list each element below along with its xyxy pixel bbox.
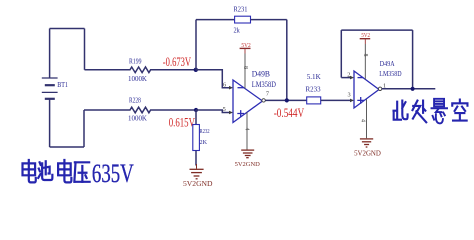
svg-text:R233: R233 (306, 85, 321, 93)
ground 5V2GND under U2 (360, 139, 373, 147)
wire bottom horizontal (50, 146, 84, 148)
wire U1 output (265, 99, 306, 101)
pin 7 output bubble (262, 99, 265, 102)
glyph 电 (2) (58, 160, 71, 182)
pin 3 arrow (350, 99, 354, 103)
ground 5V2GND under R232 (190, 164, 204, 179)
svg-text:7: 7 (266, 91, 269, 98)
wire junction to op-amp pin 6 (196, 70, 230, 88)
op-amp U1 D49B LM358D (233, 80, 263, 123)
svg-text:0.615V: 0.615V (169, 116, 195, 130)
pin 8 stub U2 (364, 39, 366, 44)
svg-text:R231: R231 (234, 5, 248, 14)
svg-text:5V2GND: 5V2GND (354, 151, 381, 158)
wire feedback right vertical U2 (412, 30, 414, 89)
svg-text:D49B: D49B (252, 69, 270, 78)
svg-text:R232: R232 (200, 128, 210, 135)
node -0.673V junction (194, 68, 198, 72)
node 0.615V junction (194, 108, 198, 112)
svg-text:6: 6 (223, 81, 226, 88)
svg-text:LM358D: LM358D (252, 81, 276, 90)
svg-text:1000K: 1000K (128, 75, 148, 83)
wire battery top stem (49, 29, 51, 79)
wire U2 output (382, 88, 436, 90)
svg-text:LM358D: LM358D (379, 70, 401, 78)
glyph 空 (452, 100, 467, 121)
wire feedback left vertical U2 (340, 30, 342, 78)
pin 8 stub (244, 48, 246, 53)
svg-text:5.1K: 5.1K (307, 72, 322, 81)
pin 5 arrow (229, 111, 233, 115)
wire pin2 from feedback (341, 77, 350, 79)
pin 1 output bubble (378, 87, 381, 90)
minus symbol pin2 (358, 77, 364, 79)
resistor R199 (85, 67, 196, 73)
note text 电池电压635V (23, 160, 90, 182)
note text 此处悬空 (394, 99, 468, 124)
glyph 电 (1) (23, 160, 36, 182)
wire top horizontal (50, 28, 85, 30)
wire feedback top U2 (341, 29, 412, 31)
svg-text:5V2GND: 5V2GND (183, 179, 213, 188)
pin 2 arrow (350, 76, 354, 80)
svg-text:635V: 635V (92, 159, 134, 188)
svg-text:5: 5 (223, 106, 226, 113)
wire battery bottom stem (49, 99, 51, 147)
pin 4 stub U2 (366, 100, 368, 139)
svg-text:1000K: 1000K (128, 114, 148, 122)
pin 4 stub (246, 112, 248, 149)
glyph 池 (38, 161, 52, 180)
svg-text:8: 8 (242, 66, 248, 69)
svg-text:R228: R228 (129, 97, 141, 105)
node -0.544V junction (285, 98, 289, 102)
svg-text:-0.673V: -0.673V (163, 55, 191, 69)
ground 5V2GND under U1 (241, 150, 254, 158)
svg-text:D49A: D49A (380, 60, 395, 68)
minus symbol pin6 (238, 87, 244, 89)
op-amp U2 D49A LM358D (354, 71, 379, 108)
node output junction (411, 87, 415, 91)
svg-text:5V2GND: 5V2GND (235, 161, 261, 168)
pin 6 arrow (229, 86, 233, 90)
battery BT1 (42, 78, 58, 99)
wire feedback vertical up (195, 20, 197, 70)
plus symbol pin5 (237, 110, 244, 117)
svg-text:2K: 2K (200, 139, 208, 146)
glyph 处 (413, 101, 427, 123)
wire feedback top right segment (251, 19, 287, 21)
svg-text:4: 4 (360, 119, 366, 122)
resistor R228 (84, 107, 196, 113)
wire feedback right vertical (286, 20, 288, 101)
resistor R232 (195, 110, 197, 125)
svg-text:8: 8 (362, 54, 368, 57)
wire feedback top left segment (196, 19, 235, 21)
glyph 此 (394, 101, 408, 120)
svg-text:R199: R199 (129, 58, 142, 66)
wire vertical up to R228 (83, 110, 85, 147)
resistor R233 (307, 97, 321, 104)
resistor R231 (235, 16, 251, 23)
svg-text:BT1: BT1 (57, 81, 68, 89)
wire R233 to pin 3 (321, 99, 351, 101)
glyph 悬 (431, 99, 447, 124)
svg-text:4: 4 (244, 128, 250, 131)
svg-text:2k: 2k (234, 26, 241, 35)
glyph 压 (74, 162, 89, 182)
wire vertical down to R199 (84, 29, 86, 70)
svg-text:-0.544V: -0.544V (274, 107, 305, 121)
wire junction to op-amp pin 5 (196, 110, 230, 113)
svg-text:3: 3 (348, 92, 351, 99)
plus symbol pin3 (357, 97, 364, 104)
